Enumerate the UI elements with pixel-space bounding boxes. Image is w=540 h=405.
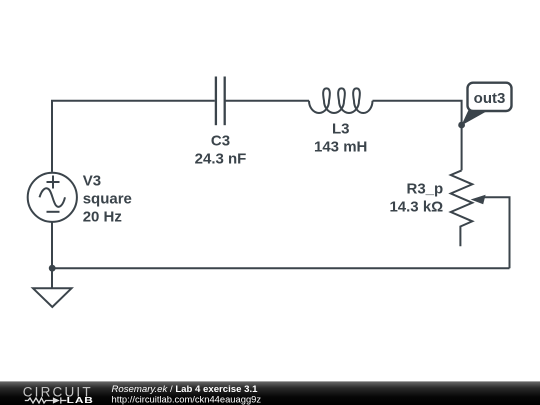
junction dot at node out3 <box>458 122 465 129</box>
V3 source leads <box>51 222 53 268</box>
bottom wire <box>52 267 510 269</box>
svg-text:LAB: LAB <box>67 396 94 405</box>
svg-text:R3_p: R3_p <box>407 181 444 198</box>
inductor L3 <box>309 88 373 113</box>
svg-text:143 mH: 143 mH <box>314 139 367 156</box>
V3 minus <box>47 211 60 213</box>
svg-text:24.3 nF: 24.3 nF <box>195 150 247 167</box>
svg-text:14.3 kΩ: 14.3 kΩ <box>389 199 443 216</box>
wire inductor to corner, down to pot <box>373 101 462 171</box>
node flag out3 pointer tail <box>461 110 489 126</box>
logo zigzag + diode <box>25 397 67 403</box>
ground lead <box>51 268 53 288</box>
wire wiper to right rail <box>484 197 510 268</box>
voltage source V3 sine symbol <box>40 188 66 207</box>
svg-text:square: square <box>83 190 132 207</box>
voltage source V3 circle <box>28 173 77 222</box>
svg-text:V3: V3 <box>83 172 101 189</box>
ground triangle <box>33 288 72 307</box>
footer text <box>112 384 262 404</box>
wire top-left horizontal <box>52 101 215 172</box>
potentiometer R3_p wiper arrow <box>471 195 486 205</box>
wire cap to inductor <box>225 100 309 102</box>
potentiometer R3_p zigzag <box>451 170 473 246</box>
svg-text:C3: C3 <box>211 132 230 149</box>
svg-text:20 Hz: 20 Hz <box>83 208 122 225</box>
junction dot at ground node <box>49 265 56 272</box>
svg-text:http://circuitlab.com/ckn44eau: http://circuitlab.com/ckn44eauagg9z <box>112 393 262 404</box>
svg-text:out3: out3 <box>474 90 506 107</box>
node flag out3 box <box>468 83 512 111</box>
capacitor C3 <box>216 77 225 126</box>
svg-text:L3: L3 <box>332 121 350 138</box>
V3 plus <box>47 181 60 183</box>
